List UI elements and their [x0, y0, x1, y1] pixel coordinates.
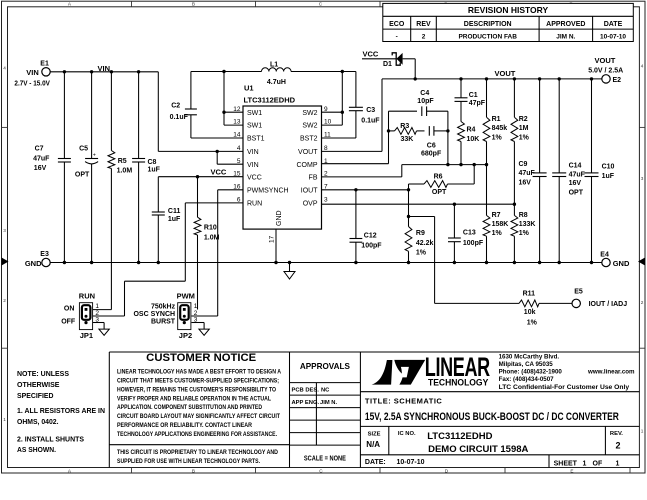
- junction D1 on VOUT rail: [414, 77, 417, 80]
- svg-text:47uF: 47uF: [569, 171, 586, 178]
- svg-text:47uF: 47uF: [519, 170, 536, 177]
- svg-text:1630 McCarthy Blvd.: 1630 McCarthy Blvd.: [499, 354, 560, 361]
- svg-text:HOWEVER, IT REMAINS THE CUSTOM: HOWEVER, IT REMAINS THE CUSTOMER'S RESPO…: [117, 386, 276, 393]
- svg-text:C4: C4: [420, 90, 429, 97]
- svg-text:E3: E3: [40, 251, 49, 258]
- wire VIN down to pins 4,5: [158, 72, 243, 164]
- svg-text:OSC SYNCH: OSC SYNCH: [133, 311, 175, 318]
- svg-text:OPT: OPT: [432, 189, 447, 196]
- svg-text:VCC: VCC: [211, 167, 227, 176]
- junction VIN rail at C7: [63, 70, 66, 73]
- svg-text:15V, 2.5A SYNCHRONOUS BUCK-BOO: 15V, 2.5A SYNCHRONOUS BUCK-BOOST DC / DC…: [365, 411, 619, 423]
- Linear Technology logo: [372, 351, 490, 387]
- svg-text:C12: C12: [364, 232, 377, 239]
- svg-text:E2: E2: [613, 77, 622, 84]
- svg-text:133K: 133K: [519, 221, 536, 228]
- junction GND rail x=355.9: [354, 261, 357, 264]
- junction GND rail x=276: [274, 261, 277, 264]
- svg-text:1: 1: [583, 460, 587, 467]
- svg-text:R10: R10: [204, 225, 217, 232]
- svg-text:R2: R2: [519, 116, 528, 123]
- svg-text:PERFORMANCE OR RELIABILITY. C: PERFORMANCE OR RELIABILITY. CONTACT LINE…: [117, 422, 252, 429]
- resistor R8 133K 1%: [511, 212, 535, 263]
- svg-text:BURST: BURST: [151, 318, 176, 325]
- svg-text:COMP: COMP: [297, 162, 318, 169]
- svg-text:1: 1: [641, 429, 644, 434]
- junction VOUT at R2: [513, 77, 516, 80]
- svg-text:750kHz: 750kHz: [151, 303, 176, 310]
- svg-text:REV: REV: [416, 21, 431, 28]
- svg-text:10pF: 10pF: [417, 98, 434, 105]
- junction SW1 pin12: [222, 111, 225, 114]
- capacitor C12 100pF: [350, 190, 383, 263]
- svg-text:REVISION HISTORY: REVISION HISTORY: [468, 5, 549, 15]
- svg-text:VCC: VCC: [363, 49, 379, 58]
- svg-text:42.2k: 42.2k: [416, 240, 434, 247]
- svg-text:10-07-10: 10-07-10: [600, 33, 626, 40]
- svg-text:VERIFY PROPER AND RELIABLE OPE: VERIFY PROPER AND RELIABLE OPERATION IN …: [117, 395, 271, 402]
- svg-text:PCB DES.: PCB DES.: [292, 388, 320, 394]
- wire COMP pin 1: [322, 111, 389, 164]
- svg-text:N/A: N/A: [366, 440, 380, 449]
- svg-text:R8: R8: [519, 212, 528, 219]
- connector JP1 RUN jumper: [61, 292, 111, 340]
- junction GND rail x=138.6: [137, 261, 140, 264]
- svg-text:3: 3: [641, 176, 644, 181]
- svg-text:5.0V / 2.5A: 5.0V / 2.5A: [588, 67, 623, 74]
- svg-text:SPECIFIED: SPECIFIED: [17, 391, 54, 400]
- wire PWMSYNCH pin 16 to JP2: [192, 190, 244, 316]
- resistor R11 10k 1%: [519, 290, 572, 326]
- capacitor C2 0.1uF: [170, 72, 243, 139]
- svg-text:OTHERWISE: OTHERWISE: [17, 380, 60, 389]
- resistor R9 42.2k 1%: [405, 217, 433, 263]
- svg-text:C9: C9: [519, 161, 528, 168]
- svg-text:AS SHOWN.: AS SHOWN.: [17, 445, 56, 454]
- svg-text:C11: C11: [168, 208, 181, 215]
- svg-text:C2: C2: [171, 103, 180, 110]
- junction GND rail x=486.5: [485, 261, 488, 264]
- ground symbol below U1: [284, 263, 295, 280]
- svg-text:VOUT: VOUT: [495, 69, 516, 78]
- svg-text:16V: 16V: [34, 165, 47, 172]
- svg-text:SW2: SW2: [302, 123, 317, 130]
- wire JP1 pin3 to ground: [93, 323, 105, 330]
- junction OVP at R2/R8: [513, 203, 516, 206]
- capacitor C8 1uF: [132, 72, 161, 263]
- svg-text:PRODUCTION FAB: PRODUCTION FAB: [458, 33, 517, 40]
- svg-text:SW1: SW1: [247, 123, 262, 130]
- svg-text:SIZE: SIZE: [368, 432, 381, 438]
- svg-text:R3: R3: [400, 123, 409, 130]
- svg-text:+: +: [93, 153, 96, 159]
- wire RUN pin 6 to JP1: [93, 203, 243, 316]
- svg-text:BST1: BST1: [247, 136, 265, 143]
- wire OVP pin 3 rail: [322, 203, 515, 205]
- svg-text:DATE:: DATE:: [365, 459, 386, 466]
- svg-text:1%: 1%: [492, 230, 503, 237]
- svg-text:1uF: 1uF: [168, 216, 181, 223]
- svg-text:E1: E1: [40, 60, 49, 67]
- terminal E3 GND: [25, 251, 50, 268]
- svg-text:1%: 1%: [519, 230, 530, 237]
- svg-text:APPLICATION. COMPONENT SUBSTI: APPLICATION. COMPONENT SUBSTITUTION AND …: [117, 404, 262, 411]
- junction at C6 right: [446, 129, 449, 132]
- resistor R1 845k 1%: [483, 79, 507, 216]
- svg-text:DATE: DATE: [604, 21, 623, 28]
- svg-text:47pF: 47pF: [469, 100, 486, 107]
- svg-text:845k: 845k: [492, 125, 508, 132]
- IC U1 LTC3112EDHD buck-boost converter: [233, 84, 331, 244]
- svg-text:VIN: VIN: [26, 68, 39, 77]
- svg-text:ECO: ECO: [389, 21, 405, 28]
- revision history table: [383, 3, 634, 41]
- terminal E4 GND: [600, 252, 630, 269]
- svg-text:NOTE: UNLESS: NOTE: UNLESS: [17, 369, 69, 378]
- svg-text:2: 2: [3, 298, 6, 303]
- svg-text:RUN: RUN: [247, 201, 262, 208]
- svg-text:VCC: VCC: [247, 174, 262, 181]
- svg-text:LINEAR TECHNOLOGY HAS MADE A B: LINEAR TECHNOLOGY HAS MADE A BEST EFFORT…: [117, 368, 281, 375]
- junction SW1 rail: [222, 70, 225, 73]
- junction GND rail x=454.4: [453, 261, 456, 264]
- svg-text:3: 3: [324, 197, 328, 204]
- svg-text:THIS CIRCUIT IS PROPRIETARY TO: THIS CIRCUIT IS PROPRIETARY TO LINEAR TE…: [117, 449, 278, 456]
- connector JP2 PWM/OSC/BURST jumper: [133, 292, 197, 340]
- resistor R7 158K 1%: [483, 212, 508, 263]
- inductor L1 4.7uH: [262, 61, 292, 86]
- svg-text:ON: ON: [64, 306, 75, 313]
- svg-text:17: 17: [269, 235, 276, 243]
- svg-text:TECHNOLOGY: TECHNOLOGY: [428, 377, 488, 387]
- svg-text:GND: GND: [613, 259, 630, 268]
- resistor R6 OPT: [409, 165, 475, 196]
- svg-text:VOUT: VOUT: [595, 56, 616, 65]
- wire FB rail: [322, 165, 487, 177]
- svg-text:SCALE = NONE: SCALE = NONE: [304, 456, 346, 463]
- svg-text:2: 2: [324, 170, 328, 177]
- svg-text:C8: C8: [148, 159, 157, 166]
- wire VIN rail: [50, 71, 158, 73]
- svg-text:100pF: 100pF: [361, 243, 382, 250]
- junction VIN pin4/pin5: [216, 150, 219, 153]
- svg-text:R1: R1: [492, 116, 501, 123]
- svg-text:IC NO.: IC NO.: [398, 431, 416, 437]
- svg-text:SUPPLIED FOR USE WITH LINEAR T: SUPPLIED FOR USE WITH LINEAR TECHNOLOGY …: [117, 458, 260, 465]
- svg-text:16V: 16V: [569, 180, 582, 187]
- svg-text:R7: R7: [492, 212, 501, 219]
- junction VOUT at C10: [590, 77, 593, 80]
- svg-text:C10: C10: [602, 164, 615, 171]
- diode D1 schottky: [383, 53, 403, 68]
- resistor R4 10K: [458, 101, 480, 164]
- svg-text:L1: L1: [270, 61, 278, 68]
- junction VIN rail at C8: [137, 70, 140, 73]
- junction OVP at C13: [453, 203, 456, 206]
- svg-text:CIRCUIT THAT MEETS CUSTOMER-SU: CIRCUIT THAT MEETS CUSTOMER-SUPPLIED SPE…: [117, 377, 279, 384]
- svg-text:IOUT / IADJ: IOUT / IADJ: [589, 301, 628, 308]
- ground at JP2: [199, 329, 209, 335]
- svg-text:APPROVED: APPROVED: [546, 21, 585, 28]
- svg-text:R11: R11: [523, 290, 536, 297]
- svg-text:16V: 16V: [519, 179, 532, 186]
- svg-text:C6: C6: [427, 142, 436, 149]
- svg-text:REV.: REV.: [610, 431, 623, 437]
- junction GND rail x=158.3: [157, 261, 160, 264]
- svg-text:680pF: 680pF: [421, 150, 442, 157]
- capacitor C10 1uF: [585, 79, 615, 263]
- wire BST2 pin 11: [322, 137, 356, 139]
- resistor R2 1M 1%: [511, 79, 530, 216]
- terminal E5 IOUT/IADJ: [572, 288, 627, 308]
- svg-text:TITLE: SCHEMATIC: TITLE: SCHEMATIC: [365, 396, 443, 405]
- svg-text:1M: 1M: [519, 125, 529, 132]
- junction VIN rail at R5: [110, 70, 113, 73]
- svg-text:OPT: OPT: [75, 172, 90, 179]
- svg-text:B: B: [192, 468, 195, 473]
- svg-text:1: 1: [616, 460, 620, 467]
- svg-text:CIRCUIT BOARD LAYOUT MAY SIGNI: CIRCUIT BOARD LAYOUT MAY SIGNIFICANTLY A…: [117, 413, 280, 420]
- svg-text:OVP: OVP: [303, 201, 318, 208]
- junction GND rail x=408.5: [407, 261, 410, 264]
- capacitor C5 OPT (polarized): [75, 72, 98, 263]
- svg-text:R9: R9: [416, 230, 425, 237]
- capacitor C1 47pF: [455, 79, 486, 107]
- svg-text:2: 2: [422, 33, 426, 40]
- resistor R10 1.0M: [194, 177, 220, 310]
- svg-text:C1: C1: [469, 92, 478, 99]
- wire U1 GND pin 17: [275, 229, 277, 262]
- svg-text:2. INSTALL SHUNTS: 2. INSTALL SHUNTS: [17, 434, 84, 443]
- junction FB at R1/R7: [485, 163, 488, 166]
- junction GND rail x=289.5: [288, 261, 291, 264]
- svg-text:1uF: 1uF: [602, 173, 615, 180]
- junction IOUT at C12: [354, 188, 357, 191]
- svg-text:JP1: JP1: [80, 331, 93, 340]
- svg-text:R6: R6: [434, 173, 443, 180]
- wire IOUT down to R9: [408, 190, 410, 217]
- svg-text:1%: 1%: [492, 134, 503, 141]
- svg-text:VIN: VIN: [98, 64, 111, 73]
- junction VIN rail at C5: [90, 70, 93, 73]
- junction GND rail x=591.5: [590, 261, 593, 264]
- svg-text:TECHNOLOGY APPLICATIONS ENGINE: TECHNOLOGY APPLICATIONS ENGINEERING FOR …: [117, 431, 277, 438]
- svg-text:DEMO CIRCUIT 1598A: DEMO CIRCUIT 1598A: [428, 444, 528, 455]
- wire JP2 pin3 to ground: [192, 323, 205, 330]
- svg-text:GND: GND: [25, 259, 42, 268]
- junction VOUT at C1: [459, 77, 462, 80]
- svg-text:2: 2: [616, 441, 621, 451]
- junction SW2 rail: [341, 70, 344, 73]
- svg-text:OPT: OPT: [569, 190, 584, 197]
- wire SW2 pins 9,10: [322, 72, 343, 126]
- svg-text:10-07-10: 10-07-10: [397, 459, 425, 466]
- svg-text:Fax: (408)434-0507: Fax: (408)434-0507: [499, 376, 555, 383]
- junction GND rail x=514.4: [513, 261, 516, 264]
- svg-text:R4: R4: [467, 126, 476, 133]
- svg-text:10k: 10k: [524, 309, 536, 316]
- svg-text:1: 1: [3, 417, 6, 422]
- svg-text:IOUT: IOUT: [301, 187, 318, 194]
- junction IOUT at R9: [407, 215, 410, 218]
- svg-text:OF: OF: [593, 460, 603, 467]
- svg-text:Phone: (408)432-1900: Phone: (408)432-1900: [499, 369, 563, 376]
- svg-text:PWMSYNCH: PWMSYNCH: [247, 187, 289, 194]
- wire VCC: [158, 177, 243, 212]
- svg-text:VIN: VIN: [247, 162, 259, 169]
- svg-text:4.7uH: 4.7uH: [267, 79, 286, 86]
- svg-text:100pF: 100pF: [463, 240, 484, 247]
- junction VOUT at C14: [558, 77, 561, 80]
- svg-text:33K: 33K: [401, 136, 414, 143]
- svg-text:SHEET: SHEET: [554, 460, 578, 467]
- svg-text:C5: C5: [79, 145, 88, 152]
- svg-text:SW1: SW1: [247, 110, 262, 117]
- wire VOUT rail: [382, 78, 602, 80]
- capacitor C7 47uF 16V: [33, 72, 71, 263]
- svg-text:1uF: 1uF: [148, 166, 161, 173]
- wire VOUT pin 8 riser: [322, 79, 383, 151]
- wire C4/C6 junction to FB rail: [447, 111, 449, 164]
- svg-text:C7: C7: [35, 145, 44, 152]
- svg-text:U1: U1: [244, 84, 254, 93]
- svg-text:1%: 1%: [527, 319, 538, 326]
- svg-text:2.7V - 15.0V: 2.7V - 15.0V: [14, 81, 50, 88]
- svg-text:APPROVALS: APPROVALS: [300, 361, 350, 371]
- svg-text:APP ENG.: APP ENG.: [292, 400, 320, 406]
- capacitor C13 100pF: [448, 204, 484, 262]
- svg-text:GND: GND: [276, 210, 283, 226]
- junction GND rail x=64.4: [63, 261, 66, 264]
- junction GND rail x=559.2: [558, 261, 561, 264]
- svg-text:47uF: 47uF: [33, 156, 50, 163]
- svg-text:Milpitas, CA 95035: Milpitas, CA 95035: [499, 361, 554, 368]
- junction COMP at R3: [387, 129, 390, 132]
- terminal E2 VOUT output: [588, 56, 623, 84]
- svg-text:LTC3112EDHD: LTC3112EDHD: [244, 96, 296, 105]
- svg-text:10K: 10K: [467, 136, 480, 143]
- svg-text:1.0M: 1.0M: [117, 167, 133, 174]
- resistor R3 33K: [389, 123, 425, 143]
- capacitor C4 10pF: [389, 90, 448, 116]
- junction FB at R4: [459, 163, 462, 166]
- svg-text:C14: C14: [569, 163, 582, 170]
- svg-text:VOUT: VOUT: [298, 149, 318, 156]
- junction SW2 pin9: [341, 111, 344, 114]
- svg-text:E4: E4: [600, 252, 609, 259]
- svg-text:-: -: [396, 33, 398, 40]
- svg-text:B: B: [192, 1, 195, 6]
- svg-text:E: E: [570, 468, 573, 473]
- svg-text:E5: E5: [574, 288, 583, 295]
- svg-text:NC: NC: [321, 387, 330, 393]
- svg-text:C13: C13: [463, 230, 476, 237]
- svg-text:R5: R5: [118, 158, 127, 165]
- capacitor C9 47uF 16V: [519, 79, 547, 263]
- svg-text:www.linear.com: www.linear.com: [587, 369, 635, 376]
- svg-text:LTC Confidential-For Customer: LTC Confidential-For Customer Use Only: [499, 384, 630, 391]
- wire SW1 pins 12,13: [224, 72, 243, 126]
- wire IOUT to R11: [409, 217, 520, 304]
- capacitor C14 47uF 16V OPT: [552, 79, 585, 263]
- svg-text:C3: C3: [366, 107, 375, 114]
- svg-text:VIN: VIN: [247, 149, 259, 156]
- svg-text:JP2: JP2: [179, 331, 192, 340]
- wire SW1 rail with L1: [191, 71, 356, 73]
- svg-text:0.1uF: 0.1uF: [170, 114, 189, 121]
- junction IOUT at R6: [407, 188, 410, 191]
- terminal E1 VIN input: [14, 60, 50, 87]
- resistor R5 1.0M: [108, 72, 132, 310]
- svg-text:PWM: PWM: [177, 292, 195, 301]
- svg-text:JIM N.: JIM N.: [556, 33, 575, 40]
- svg-text:CUSTOMER NOTICE: CUSTOMER NOTICE: [146, 352, 256, 364]
- svg-text:BST2: BST2: [300, 136, 318, 143]
- svg-text:OHMS, 0402.: OHMS, 0402.: [17, 417, 59, 426]
- junction GND rail x=539.6: [538, 261, 541, 264]
- wire GND rail: [50, 262, 601, 264]
- svg-text:0.1uF: 0.1uF: [361, 117, 380, 124]
- svg-text:4: 4: [3, 66, 6, 71]
- svg-text:FB: FB: [309, 174, 318, 181]
- svg-text:158K: 158K: [492, 221, 509, 228]
- svg-text:DESCRIPTION: DESCRIPTION: [464, 21, 512, 28]
- svg-text:1. ALL RESISTORS ARE IN: 1. ALL RESISTORS ARE IN: [17, 406, 105, 415]
- svg-text:1%: 1%: [416, 250, 427, 257]
- svg-text:OFF: OFF: [61, 318, 76, 325]
- svg-text:1%: 1%: [519, 134, 530, 141]
- svg-text:D1: D1: [383, 61, 392, 68]
- svg-text:SW2: SW2: [302, 110, 317, 117]
- wire IOUT pin 7: [322, 189, 409, 191]
- wire VCC to D1: [362, 58, 396, 60]
- wire D1 to VOUT rail: [403, 59, 416, 79]
- junction FB at C4 network: [446, 163, 449, 166]
- junction VCC at R10: [196, 175, 199, 178]
- junction VOUT at R1: [485, 77, 488, 80]
- capacitor C11 1uF: [152, 208, 181, 263]
- svg-text:2: 2: [641, 300, 644, 305]
- capacitor C3 0.1uF: [349, 72, 380, 139]
- svg-text:RUN: RUN: [79, 292, 95, 301]
- junction GND rail x=91.6: [90, 261, 93, 264]
- svg-text:LTC3112EDHD: LTC3112EDHD: [427, 431, 492, 442]
- svg-text:3: 3: [3, 228, 6, 233]
- junction FB at R6: [473, 163, 476, 166]
- capacitor C6 680pF: [421, 126, 448, 157]
- svg-text:4: 4: [641, 64, 644, 69]
- svg-text:JIM N.: JIM N.: [320, 400, 337, 406]
- junction VOUT at C9: [538, 77, 541, 80]
- ground at JP1: [99, 329, 109, 335]
